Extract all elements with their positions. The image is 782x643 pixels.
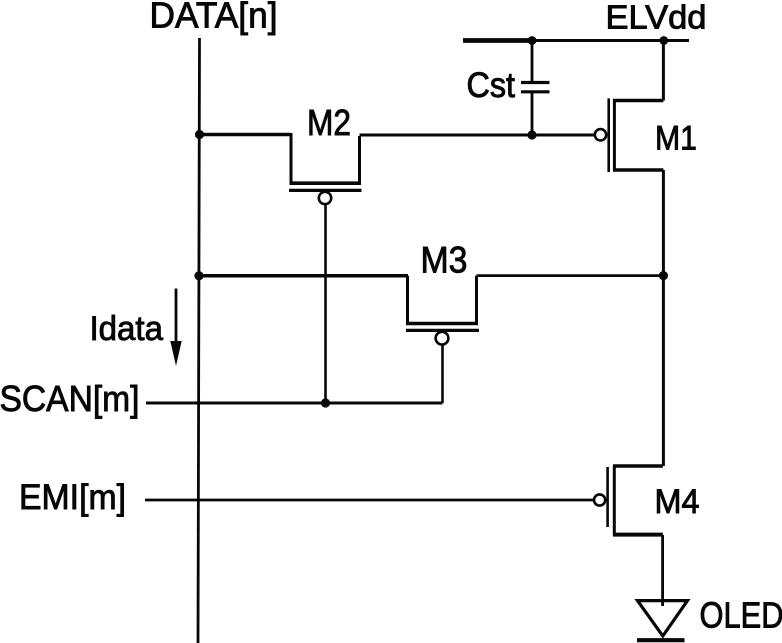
transistor M2 right drain contact: [358, 136, 361, 182]
svg-text:M1: M1: [655, 120, 697, 158]
transistor M4 gate bar: [606, 467, 609, 527]
node junction M3 to vertical: [659, 271, 668, 280]
transistor M1 gate bar: [607, 98, 610, 172]
wire rail to M1 drain: [662, 41, 665, 101]
wire node to M2 left: [200, 133, 292, 136]
capacitor Cst top lead: [531, 41, 534, 82]
wire M1 source down to M4: [662, 170, 665, 466]
diode OLED cathode bar: [637, 638, 685, 642]
transistor M3 channel bar: [406, 322, 478, 326]
transistor M3 gate bubble: [436, 332, 449, 345]
svg-text:Idata: Idata: [90, 310, 164, 348]
wire M2 drain to M1 gate: [360, 134, 595, 137]
wire M2 gate down to SCAN: [324, 204, 327, 403]
wire mid left segment: [199, 274, 408, 278]
transistor M2 left source contact: [290, 133, 293, 182]
arrow Idata shaft: [175, 289, 178, 345]
power rail ELVdd right segment: [536, 39, 689, 42]
transistor M3 left source contact: [406, 276, 409, 322]
svg-text:SCAN[m]: SCAN[m]: [0, 378, 140, 419]
transistor M2 channel bar: [290, 181, 362, 185]
transistor M2 gate bar: [289, 189, 362, 192]
svg-text:DATA[n]: DATA[n]: [150, 0, 278, 36]
node junction Cst to gate wire: [527, 130, 536, 139]
capacitor Cst top plate: [521, 81, 550, 84]
transistor M4 bottom source stub: [613, 533, 663, 537]
transistor M4 gate bubble: [594, 494, 605, 505]
capacitor Cst bottom lead: [531, 93, 534, 135]
svg-text:Cst: Cst: [467, 66, 516, 105]
svg-text:OLED: OLED: [700, 594, 782, 635]
arrow Idata head: [170, 341, 181, 366]
svg-text:M2: M2: [307, 102, 351, 143]
transistor M2 gate bubble: [319, 192, 331, 204]
wire DATA vertical line: [198, 38, 200, 643]
transistor M3 gate bar: [406, 329, 479, 332]
wire EMI line to M4 gate: [145, 499, 594, 502]
power rail ELVdd thick segment: [463, 38, 536, 43]
wire mid right segment: [477, 274, 664, 277]
node junction M2 gate to SCAN: [321, 398, 330, 407]
diode OLED anode triangle: [638, 601, 688, 636]
wire M3 gate down to SCAN: [441, 345, 444, 403]
svg-text:M4: M4: [655, 483, 700, 521]
svg-text:EMI[m]: EMI[m]: [19, 477, 126, 517]
node junction DATA to M2 source: [195, 130, 204, 139]
svg-text:M3: M3: [421, 240, 468, 281]
transistor M4 channel bar: [613, 466, 616, 536]
transistor M1 bottom source stub: [613, 168, 663, 172]
transistor M1 top drain stub: [613, 99, 663, 103]
svg-text:ELVdd: ELVdd: [606, 0, 707, 36]
node junction DATA to mid wire: [194, 271, 203, 280]
node junction rail to M1: [659, 36, 668, 45]
node junction rail to Cst: [528, 36, 537, 45]
wire SCAN line: [146, 402, 443, 405]
transistor M4 top drain stub: [613, 464, 663, 468]
wire M4 source to OLED: [661, 535, 664, 606]
transistor M1 gate bubble: [595, 129, 606, 140]
transistor M1 channel bar: [613, 99, 616, 171]
transistor M3 right drain contact: [475, 276, 478, 322]
capacitor Cst bottom plate: [521, 90, 550, 93]
